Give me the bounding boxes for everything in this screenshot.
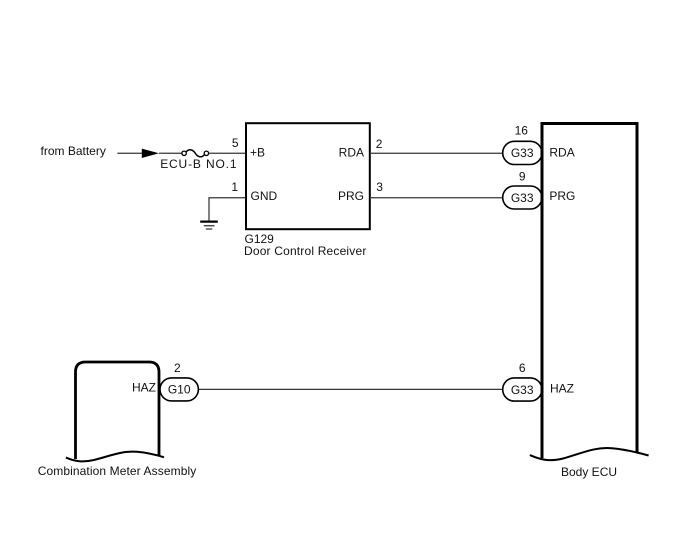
- svg-text:2: 2: [376, 137, 383, 151]
- svg-text:G10: G10: [168, 383, 191, 397]
- svg-text:5: 5: [232, 136, 239, 150]
- wire HAZ G10 to G33 pin 6: [198, 388, 502, 390]
- svg-text:HAZ: HAZ: [132, 381, 156, 395]
- svg-text:PRG: PRG: [338, 189, 364, 203]
- svg-text:16: 16: [515, 124, 529, 138]
- svg-text:Body ECU: Body ECU: [561, 465, 617, 479]
- wavy bottom Body ECU: [530, 448, 649, 460]
- svg-text:HAZ: HAZ: [550, 381, 574, 395]
- svg-text:Door Control Receiver: Door Control Receiver: [244, 244, 367, 258]
- svg-text:2: 2: [174, 361, 181, 375]
- connector G33 pin 16: [503, 141, 542, 164]
- svg-text:ECU-B NO.1: ECU-B NO.1: [160, 157, 237, 171]
- svg-text:9: 9: [519, 169, 526, 183]
- wavy bottom Combination Meter Assembly: [66, 452, 164, 462]
- connector G10 pin 2: [160, 378, 198, 401]
- wire battery feed: [117, 152, 142, 154]
- fuse ECU-B NO.1: [182, 150, 209, 157]
- ground: [200, 222, 218, 229]
- svg-text:3: 3: [376, 180, 383, 194]
- svg-text:PRG: PRG: [549, 189, 575, 203]
- wire GND pin 1 to ground: [209, 198, 245, 221]
- svg-text:G33: G33: [511, 191, 534, 205]
- box Body ECU: [542, 124, 637, 459]
- svg-text:from Battery: from Battery: [41, 144, 106, 158]
- svg-text:+B: +B: [250, 146, 265, 160]
- svg-text:Combination Meter Assembly: Combination Meter Assembly: [38, 464, 197, 478]
- box Combination Meter Assembly: [76, 362, 160, 459]
- connector G33 pin 9: [503, 186, 542, 209]
- wire arrow to fuse: [159, 152, 182, 154]
- svg-text:6: 6: [519, 361, 526, 375]
- svg-text:G33: G33: [511, 146, 534, 160]
- svg-text:GND: GND: [251, 189, 278, 203]
- svg-text:G33: G33: [511, 383, 534, 397]
- svg-text:RDA: RDA: [339, 146, 364, 160]
- connector G33 pin 6: [503, 378, 542, 401]
- arrow power feed: [142, 149, 159, 158]
- wire RDA to connector G33 pin 16: [370, 152, 503, 154]
- wire fuse to +B pin 5: [209, 152, 245, 154]
- box U1 Door Control Receiver G129: [246, 123, 370, 229]
- svg-text:RDA: RDA: [549, 146, 574, 160]
- svg-text:1: 1: [231, 180, 238, 194]
- wire PRG to connector G33 pin 9: [370, 197, 503, 199]
